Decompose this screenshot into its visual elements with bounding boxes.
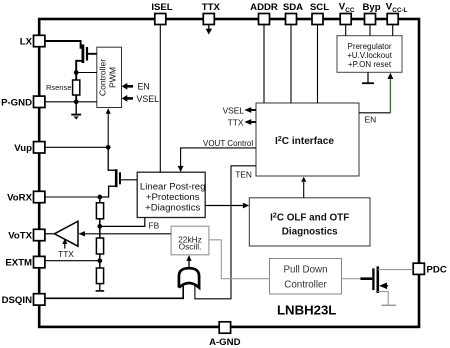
pin VoRX bbox=[7, 191, 45, 203]
wire OR gate output arrow into oscillator bbox=[186, 255, 191, 268]
block Preregulator bbox=[337, 36, 402, 73]
svg-text:+Diagnostics: +Diagnostics bbox=[145, 202, 200, 213]
wire Q3 drain to PDC pin bbox=[378, 269, 413, 271]
IC boundary bbox=[39, 19, 419, 327]
transistor Q2 gate plate bbox=[119, 172, 121, 184]
block I2C interface bbox=[256, 103, 359, 176]
wire VOUT Control from I2C to Linear block bbox=[178, 139, 256, 172]
svg-text:Pull Down: Pull Down bbox=[283, 264, 327, 275]
svg-text:TEN: TEN bbox=[235, 169, 252, 179]
pin ISEL bbox=[151, 2, 172, 25]
svg-text:EN: EN bbox=[365, 114, 377, 124]
svg-text:VoTX: VoTX bbox=[8, 231, 32, 242]
wire node to R3 bbox=[99, 261, 101, 268]
svg-text:TTX: TTX bbox=[58, 249, 74, 259]
node P-GND junction bbox=[74, 99, 79, 104]
pin DSQIN bbox=[2, 294, 45, 306]
transistor Q3 pulldown NMOS gate plate bbox=[372, 268, 374, 290]
resistor Rsense bbox=[73, 80, 80, 95]
wire Q1 gate to Controller PWM bbox=[88, 53, 97, 55]
wire P-GND pin to Controller PWM bbox=[45, 101, 97, 103]
svg-text:TTX: TTX bbox=[228, 118, 244, 128]
transistor Q2 linear pass channel bar bbox=[115, 169, 118, 187]
transistor Q3 channel bar bbox=[376, 266, 379, 293]
pin EXTM bbox=[5, 256, 45, 268]
svg-text:DSQIN: DSQIN bbox=[2, 295, 32, 306]
wire EXTM pin to node bbox=[45, 260, 100, 262]
svg-text:I2C interface: I2C interface bbox=[275, 136, 334, 147]
block I2C OLF and OTF Diagnostics bbox=[249, 198, 370, 246]
ground below P-GND node bbox=[71, 102, 81, 120]
wire OLF to I2C interface arrow bbox=[301, 177, 306, 198]
svg-text:Controller: Controller bbox=[98, 59, 108, 96]
svg-text:+U.V.lockout: +U.V.lockout bbox=[347, 51, 393, 60]
block Linear Post-reg bbox=[137, 172, 205, 217]
wire Byp down to Preregulator bbox=[369, 25, 371, 36]
wire oscillator to Pull Down Controller bbox=[209, 240, 270, 279]
pin P-GND bbox=[1, 96, 45, 108]
svg-text:Rsense: Rsense bbox=[46, 83, 71, 92]
pin LX bbox=[20, 35, 45, 47]
block U1 Controller PWM bbox=[97, 47, 122, 107]
wire TEN from I2C interface to OR gate right input bbox=[195, 166, 256, 299]
svg-text:P-GND: P-GND bbox=[1, 97, 32, 108]
svg-text:TTX: TTX bbox=[202, 2, 221, 13]
wire Q1 source to Rsense node bbox=[76, 61, 83, 73]
pin Vup bbox=[14, 142, 45, 154]
svg-text:LX: LX bbox=[20, 37, 33, 48]
wire R2 to EXTM node bbox=[99, 254, 101, 261]
pin SDA bbox=[283, 2, 303, 25]
svg-text:A-GND: A-GND bbox=[209, 337, 241, 348]
wire FB from Linear block bbox=[100, 218, 145, 227]
svg-text:FB: FB bbox=[149, 221, 160, 231]
pin SCL bbox=[310, 2, 329, 25]
wire oscillator output to buffer input bbox=[78, 231, 171, 236]
pin VCC bbox=[339, 2, 355, 25]
svg-text:ISEL: ISEL bbox=[151, 2, 172, 13]
wire TTX pin stub arrow bbox=[206, 25, 212, 35]
wire Q2 gate to Linear block bbox=[121, 179, 137, 181]
wire Vup rail up into Controller PWM bottom bbox=[106, 108, 111, 147]
ground below Q3 bbox=[382, 304, 396, 306]
wire VSEL arrow into Controller PWM bbox=[122, 94, 159, 104]
wire SCL down to I2C interface bbox=[317, 25, 319, 104]
wire node to R1 bbox=[99, 197, 101, 203]
svg-text:Vup: Vup bbox=[14, 143, 32, 154]
wire VCC-L down to Preregulator bbox=[392, 25, 394, 36]
resistor R2 bbox=[96, 238, 103, 254]
wire SDA down to I2C interface bbox=[290, 25, 292, 104]
resistor R1 bbox=[96, 203, 103, 219]
pin TTX top bbox=[202, 2, 221, 25]
svg-text:VSEL: VSEL bbox=[223, 106, 245, 116]
wire Pull Down Controller to Q3 gate bbox=[342, 278, 362, 280]
pin A-GND bbox=[209, 322, 241, 348]
node above Rsense bbox=[74, 70, 79, 75]
wire Vup pin to node bbox=[45, 146, 108, 148]
svg-text:SCL: SCL bbox=[310, 2, 329, 13]
transistor Q1 buck PMOS channel bar bbox=[82, 44, 85, 63]
wire R1 to FB node bbox=[99, 219, 101, 227]
pin VoTX bbox=[8, 229, 45, 241]
wire Rsense to P-GND node bbox=[75, 95, 77, 102]
wire Q3 source to ground bbox=[378, 292, 388, 305]
svg-text:EXTM: EXTM bbox=[5, 258, 32, 269]
wire VSEL arrow out of I2C interface bbox=[223, 106, 256, 116]
svg-text:LNBH23L: LNBH23L bbox=[277, 303, 336, 318]
transistor Q3 body arrow bbox=[379, 283, 387, 290]
block 22kHz Oscill bbox=[171, 226, 209, 255]
pin PDC bbox=[413, 263, 447, 275]
svg-text:SDA: SDA bbox=[283, 2, 303, 13]
wire TTX arrow into buffer bbox=[58, 239, 74, 259]
node Vup junction bbox=[106, 145, 111, 150]
wire EN arrow into Controller PWM bbox=[122, 82, 150, 92]
wire LX to buck transistor bbox=[45, 41, 83, 48]
svg-text:VOUT Control: VOUT Control bbox=[203, 139, 253, 148]
wire EN from I2C interface to Preregulator bbox=[359, 73, 393, 125]
svg-text:Preregulator: Preregulator bbox=[347, 42, 391, 51]
node VoRX junction bbox=[97, 195, 102, 200]
svg-text:+P.ON reset: +P.ON reset bbox=[348, 60, 392, 69]
svg-text:I2C OLF and OTF: I2C OLF and OTF bbox=[270, 212, 349, 223]
wire FB node to R2 bbox=[99, 226, 101, 238]
ground below Preregulator bbox=[362, 72, 374, 83]
wire Vup node down to pass transistor drain bbox=[108, 147, 116, 170]
svg-text:VSEL: VSEL bbox=[137, 94, 160, 104]
gate G1 OR gate bbox=[179, 268, 199, 287]
ground below R3 bbox=[96, 284, 105, 291]
svg-text:Diagnostics: Diagnostics bbox=[282, 227, 338, 238]
svg-text:PWM: PWM bbox=[108, 67, 118, 88]
pin Byp bbox=[362, 2, 380, 25]
op-amp buffer VoTX bbox=[45, 221, 78, 246]
node EXTM junction bbox=[97, 258, 102, 263]
svg-text:Byp: Byp bbox=[362, 2, 380, 13]
block Pull Down Controller bbox=[270, 259, 342, 295]
node FB junction bbox=[97, 224, 102, 229]
wire Linear output arrow into OLF block bbox=[205, 203, 249, 209]
wire VCC down to Preregulator bbox=[345, 25, 347, 36]
pin VCC-L bbox=[386, 2, 408, 25]
wire node to Controller PWM left bbox=[76, 72, 97, 74]
svg-text:ADDR: ADDR bbox=[250, 2, 278, 13]
wire node to Rsense bbox=[75, 73, 77, 81]
wire VoRX pin to node bbox=[45, 196, 100, 198]
svg-text:Oscill.: Oscill. bbox=[179, 242, 202, 252]
svg-text:EN: EN bbox=[138, 82, 150, 92]
svg-text:VoRX: VoRX bbox=[7, 193, 32, 204]
wire TTX arrow out of I2C interface bbox=[228, 118, 256, 128]
svg-text:Controller: Controller bbox=[284, 280, 327, 291]
pin ADDR bbox=[250, 2, 278, 25]
wire Q2 source to VoRX node bbox=[100, 186, 116, 197]
transistor Q1 gate plate bbox=[86, 47, 88, 61]
svg-text:PDC: PDC bbox=[427, 265, 447, 276]
resistor R3 bbox=[96, 268, 103, 284]
wire DSQIN to OR gate left input bbox=[45, 285, 183, 299]
wire ADDR down to I2C interface bbox=[263, 25, 265, 104]
wire ISEL down to Linear block bbox=[159, 25, 161, 173]
